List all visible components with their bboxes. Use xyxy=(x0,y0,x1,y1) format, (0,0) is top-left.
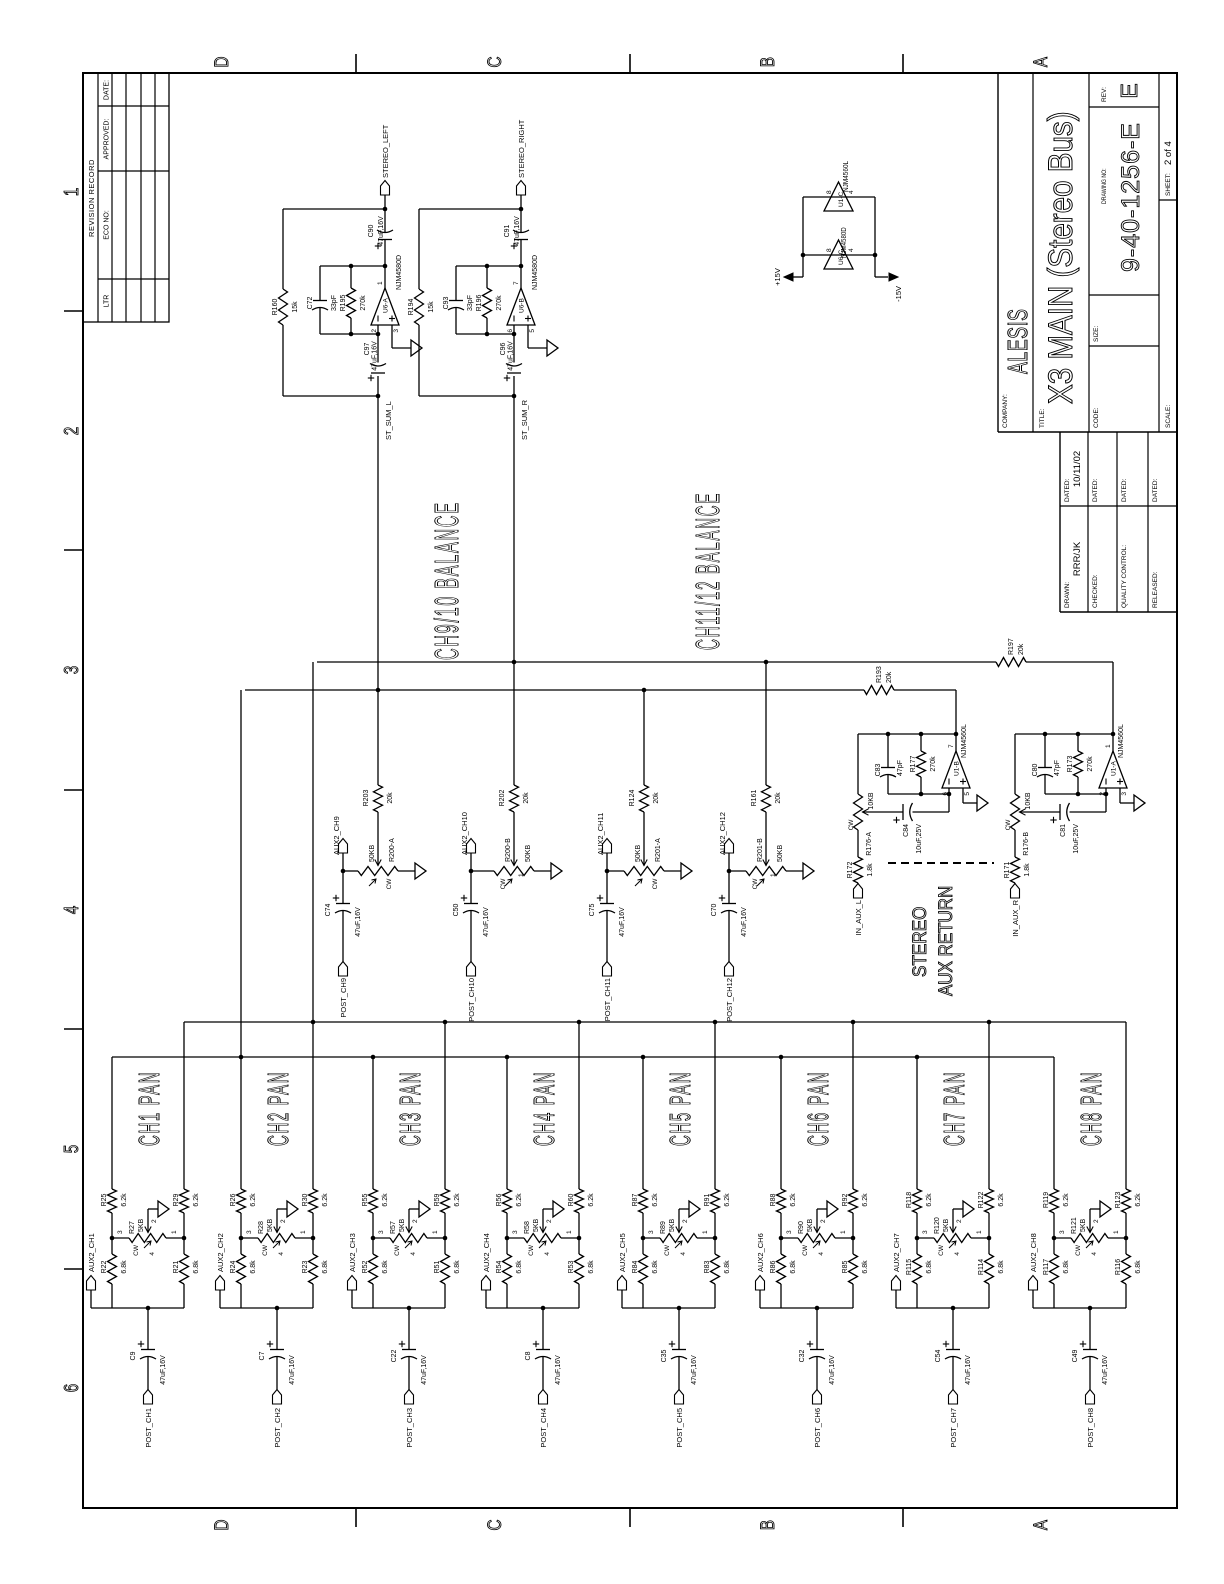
svg-text:6.2k: 6.2k xyxy=(998,1193,1005,1207)
svg-text:R176-A: R176-A xyxy=(866,832,873,856)
svg-text:47pF: 47pF xyxy=(1054,760,1061,776)
svg-text:U6-A: U6-A xyxy=(383,298,390,313)
svg-text:R201-A: R201-A xyxy=(655,838,662,862)
svg-text:A: A xyxy=(1029,1519,1051,1530)
svg-text:R114: R114 xyxy=(978,1259,985,1275)
svg-text:R52: R52 xyxy=(362,1260,369,1273)
svg-text:6.2k: 6.2k xyxy=(516,1193,523,1207)
svg-text:270k: 270k xyxy=(496,295,503,311)
svg-text:6.2k: 6.2k xyxy=(790,1193,797,1207)
svg-text:D: D xyxy=(210,57,232,68)
svg-text:47uF,16V: 47uF,16V xyxy=(160,1355,167,1385)
svg-text:R121: R121 xyxy=(1071,1217,1078,1234)
svg-text:SIZE:: SIZE: xyxy=(1093,326,1100,342)
svg-text:3: 3 xyxy=(378,1230,385,1234)
svg-text:ALESIS: ALESIS xyxy=(1002,308,1033,374)
svg-text:2: 2 xyxy=(412,1219,419,1223)
svg-text:TITLE:: TITLE: xyxy=(1039,408,1046,428)
svg-text:6.8k: 6.8k xyxy=(588,1260,595,1274)
svg-text:2: 2 xyxy=(371,329,378,333)
svg-text:AUX RETURN: AUX RETURN xyxy=(934,886,956,996)
svg-text:R56: R56 xyxy=(496,1193,503,1206)
svg-text:R176-B: R176-B xyxy=(1023,832,1030,856)
svg-text:5KB: 5KB xyxy=(267,1218,274,1232)
svg-text:R118: R118 xyxy=(906,1192,913,1208)
svg-text:47uF,16V: 47uF,16V xyxy=(483,907,490,937)
svg-text:CH11/12 BALANCE: CH11/12 BALANCE xyxy=(691,492,727,650)
svg-text:6.2k: 6.2k xyxy=(862,1193,869,1207)
svg-text:C70: C70 xyxy=(711,903,718,916)
svg-text:POST_CH7: POST_CH7 xyxy=(949,1408,958,1448)
svg-text:R200-A: R200-A xyxy=(389,838,396,862)
svg-text:47uF,16V: 47uF,16V xyxy=(289,1355,296,1385)
svg-text:B: B xyxy=(756,57,778,67)
svg-text:4: 4 xyxy=(544,1252,551,1256)
svg-text:R21: R21 xyxy=(173,1260,180,1273)
svg-text:C49: C49 xyxy=(1072,1349,1079,1362)
svg-text:C91: C91 xyxy=(504,224,511,237)
svg-text:R201-B: R201-B xyxy=(757,838,764,862)
svg-text:1: 1 xyxy=(770,873,777,877)
svg-text:APPROVED:: APPROVED: xyxy=(104,119,111,160)
svg-text:1: 1 xyxy=(60,188,83,196)
svg-text:6: 6 xyxy=(60,1384,83,1392)
svg-text:X3 MAIN (Stereo Bus): X3 MAIN (Stereo Bus) xyxy=(1041,111,1079,404)
svg-text:AUX2_CH7: AUX2_CH7 xyxy=(892,1233,901,1272)
svg-text:AUX2_CH2: AUX2_CH2 xyxy=(216,1233,225,1272)
svg-text:C96: C96 xyxy=(500,342,507,355)
svg-text:1: 1 xyxy=(377,281,384,285)
svg-text:47uF,16V: 47uF,16V xyxy=(1102,1355,1109,1385)
svg-text:R90: R90 xyxy=(798,1221,805,1234)
svg-text:C75: C75 xyxy=(589,903,596,916)
svg-text:2: 2 xyxy=(956,1219,963,1223)
svg-text:R24: R24 xyxy=(230,1260,237,1273)
svg-text:3: 3 xyxy=(117,1230,124,1234)
svg-text:-15V: -15V xyxy=(894,286,903,302)
svg-text:NJM4580D: NJM4580D xyxy=(532,255,539,290)
svg-text:R177: R177 xyxy=(910,756,917,773)
svg-text:POST_CH2: POST_CH2 xyxy=(273,1408,282,1448)
svg-text:20k: 20k xyxy=(523,792,530,804)
svg-text:R59: R59 xyxy=(434,1193,441,1206)
svg-text:R123: R123 xyxy=(1115,1192,1122,1209)
svg-text:R26: R26 xyxy=(230,1193,237,1206)
svg-text:CH1 PAN: CH1 PAN xyxy=(133,1071,166,1146)
svg-text:AUX2_CH12: AUX2_CH12 xyxy=(718,812,727,855)
svg-text:6.8k: 6.8k xyxy=(724,1260,731,1274)
svg-text:B: B xyxy=(756,1520,778,1530)
svg-text:15k: 15k xyxy=(292,301,299,313)
svg-text:AUX2_CH3: AUX2_CH3 xyxy=(348,1233,357,1272)
svg-text:4: 4 xyxy=(680,1252,687,1256)
svg-text:C35: C35 xyxy=(661,1349,668,1362)
svg-text:DATED:: DATED: xyxy=(1092,478,1099,502)
svg-text:R171: R171 xyxy=(1004,862,1011,879)
svg-text:STEREO_RIGHT: STEREO_RIGHT xyxy=(517,119,526,178)
svg-text:3: 3 xyxy=(922,1230,929,1234)
svg-text:3: 3 xyxy=(648,1230,655,1234)
svg-text:4: 4 xyxy=(1091,1252,1098,1256)
svg-text:20k: 20k xyxy=(653,792,660,804)
svg-text:POST_CH11: POST_CH11 xyxy=(603,978,612,1021)
svg-text:R27: R27 xyxy=(129,1221,136,1234)
svg-text:STEREO: STEREO xyxy=(908,906,930,977)
svg-text:47uF,16V: 47uF,16V xyxy=(555,1355,562,1385)
svg-text:4: 4 xyxy=(278,1252,285,1256)
svg-text:R55: R55 xyxy=(362,1193,369,1206)
svg-text:6.2k: 6.2k xyxy=(454,1193,461,1207)
svg-text:6.8k: 6.8k xyxy=(652,1260,659,1274)
svg-text:AUX2_CH4: AUX2_CH4 xyxy=(482,1233,491,1272)
svg-text:ST_SUM_R: ST_SUM_R xyxy=(520,399,529,440)
svg-text:CW: CW xyxy=(1005,819,1012,831)
svg-text:8: 8 xyxy=(826,248,833,252)
svg-text:COMPANY:: COMPANY: xyxy=(1002,394,1009,428)
svg-text:3: 3 xyxy=(60,666,83,674)
svg-text:2: 2 xyxy=(1093,1219,1100,1223)
svg-text:R53: R53 xyxy=(568,1260,575,1273)
svg-text:R172: R172 xyxy=(847,862,854,879)
svg-text:U1-A: U1-A xyxy=(1111,761,1118,776)
svg-text:6.8k: 6.8k xyxy=(516,1260,523,1274)
svg-text:270k: 270k xyxy=(1087,756,1094,772)
svg-text:5: 5 xyxy=(964,792,971,796)
svg-text:4: 4 xyxy=(818,1252,825,1256)
svg-text:ST_SUM_L: ST_SUM_L xyxy=(384,401,393,440)
svg-text:6.8k: 6.8k xyxy=(121,1260,128,1274)
svg-text:6.2k: 6.2k xyxy=(250,1193,257,1207)
svg-text:DRAWN:: DRAWN: xyxy=(1064,582,1071,608)
svg-text:R117: R117 xyxy=(1043,1259,1050,1275)
svg-text:5KB: 5KB xyxy=(807,1218,814,1232)
svg-text:C8: C8 xyxy=(525,1351,532,1360)
svg-text:R30: R30 xyxy=(302,1193,309,1206)
svg-text:33pF: 33pF xyxy=(467,295,474,311)
svg-text:2: 2 xyxy=(820,1219,827,1223)
svg-text:CW: CW xyxy=(938,1244,945,1256)
svg-text:50KB: 50KB xyxy=(369,845,376,862)
svg-text:7: 7 xyxy=(948,744,955,748)
svg-text:R115: R115 xyxy=(906,1259,913,1275)
svg-text:NJM4560L: NJM4560L xyxy=(1118,724,1125,758)
svg-text:1: 1 xyxy=(976,1230,983,1234)
svg-text:R124: R124 xyxy=(629,790,636,807)
svg-text:6.8k: 6.8k xyxy=(998,1260,1005,1274)
svg-text:RELEASED:: RELEASED: xyxy=(1152,571,1159,608)
svg-text:R91: R91 xyxy=(704,1193,711,1206)
svg-text:5KB: 5KB xyxy=(138,1218,145,1232)
svg-text:1: 1 xyxy=(1113,1230,1120,1234)
svg-text:CH4 PAN: CH4 PAN xyxy=(528,1071,561,1146)
svg-text:R28: R28 xyxy=(258,1221,265,1234)
svg-text:CW: CW xyxy=(528,1244,535,1256)
svg-text:5KB: 5KB xyxy=(1080,1218,1087,1232)
svg-text:CW: CW xyxy=(848,819,855,831)
svg-text:C83: C83 xyxy=(875,763,882,776)
svg-text:C32: C32 xyxy=(799,1349,806,1362)
svg-text:POST_CH4: POST_CH4 xyxy=(539,1408,548,1448)
svg-text:47pF: 47pF xyxy=(897,760,904,776)
svg-text:6.2k: 6.2k xyxy=(193,1193,200,1207)
svg-text:15k: 15k xyxy=(428,301,435,313)
svg-text:7: 7 xyxy=(513,281,520,285)
svg-text:4: 4 xyxy=(954,1252,961,1256)
svg-text:47uF,16V: 47uF,16V xyxy=(619,907,626,937)
svg-text:AUX2_CH1: AUX2_CH1 xyxy=(87,1233,96,1272)
svg-text:6.2k: 6.2k xyxy=(926,1193,933,1207)
svg-text:C9: C9 xyxy=(130,1351,137,1360)
svg-text:10uF,25V: 10uF,25V xyxy=(1073,824,1080,854)
svg-text:C7: C7 xyxy=(259,1351,266,1360)
svg-text:47uF,16V: 47uF,16V xyxy=(691,1355,698,1385)
svg-text:R193: R193 xyxy=(876,666,883,683)
svg-text:POST_CH3: POST_CH3 xyxy=(405,1408,414,1448)
svg-text:AUX2_CH6: AUX2_CH6 xyxy=(756,1233,765,1272)
svg-text:CW: CW xyxy=(262,1244,269,1256)
svg-text:R29: R29 xyxy=(173,1193,180,1206)
svg-text:6.8k: 6.8k xyxy=(926,1260,933,1274)
svg-text:R161: R161 xyxy=(751,790,758,807)
svg-text:DATED:: DATED: xyxy=(1121,478,1128,502)
svg-text:47uF,16V: 47uF,16V xyxy=(355,907,362,937)
svg-text:270k: 270k xyxy=(930,756,937,772)
svg-text:DATED:: DATED: xyxy=(1152,478,1159,502)
svg-text:R202: R202 xyxy=(499,790,506,807)
svg-text:8: 8 xyxy=(826,190,833,194)
svg-text:10KB: 10KB xyxy=(868,792,875,809)
svg-text:2: 2 xyxy=(682,1219,689,1223)
svg-text:47uF,16V: 47uF,16V xyxy=(514,216,521,246)
svg-text:R89: R89 xyxy=(660,1221,667,1234)
svg-text:U1-B: U1-B xyxy=(954,761,961,776)
svg-text:LTR: LTR xyxy=(104,295,111,308)
svg-text:6.2k: 6.2k xyxy=(652,1193,659,1207)
svg-text:CW: CW xyxy=(133,1244,140,1256)
svg-text:R122: R122 xyxy=(978,1192,985,1209)
svg-text:2: 2 xyxy=(280,1219,287,1223)
svg-text:SCALE:: SCALE: xyxy=(1165,405,1172,428)
svg-text:A: A xyxy=(1029,56,1051,67)
svg-text:C80: C80 xyxy=(1032,763,1039,776)
svg-text:R84: R84 xyxy=(632,1260,639,1273)
svg-text:R22: R22 xyxy=(101,1260,108,1273)
svg-text:33pF: 33pF xyxy=(331,295,338,311)
svg-text:AUX2_CH9: AUX2_CH9 xyxy=(332,816,341,855)
svg-text:POST_CH12: POST_CH12 xyxy=(725,978,734,1022)
svg-text:R83: R83 xyxy=(704,1260,711,1273)
svg-text:R195: R195 xyxy=(340,295,347,312)
svg-text:6.8k: 6.8k xyxy=(862,1260,869,1274)
svg-text:ECO NO:: ECO NO: xyxy=(104,210,111,240)
svg-text:POST_CH8: POST_CH8 xyxy=(1086,1408,1095,1448)
svg-text:CW: CW xyxy=(1075,1244,1082,1256)
svg-text:47uF,16V: 47uF,16V xyxy=(829,1355,836,1385)
svg-text:1.8k: 1.8k xyxy=(1024,863,1031,877)
svg-text:6: 6 xyxy=(507,329,514,333)
svg-text:CH9/10 BALANCE: CH9/10 BALANCE xyxy=(428,501,466,660)
svg-text:3: 3 xyxy=(1121,792,1128,796)
svg-text:R54: R54 xyxy=(496,1260,503,1273)
svg-text:R92: R92 xyxy=(842,1193,849,1206)
svg-text:10KB: 10KB xyxy=(1025,792,1032,809)
svg-text:2: 2 xyxy=(60,427,83,435)
svg-text:C97: C97 xyxy=(364,342,371,355)
svg-text:6.8k: 6.8k xyxy=(322,1260,329,1274)
svg-text:9-40-1256-E: 9-40-1256-E xyxy=(1117,122,1145,272)
svg-text:DATED:: DATED: xyxy=(1064,478,1071,502)
svg-text:6.8k: 6.8k xyxy=(193,1260,200,1274)
svg-text:SHEET:: SHEET: xyxy=(1165,173,1172,196)
svg-text:CW: CW xyxy=(652,878,659,890)
svg-text:R58: R58 xyxy=(524,1221,531,1234)
svg-text:QUALITY CONTROL:: QUALITY CONTROL: xyxy=(1121,545,1128,608)
svg-text:5: 5 xyxy=(60,1145,83,1153)
svg-text:POST_CH5: POST_CH5 xyxy=(675,1408,684,1448)
svg-text:4: 4 xyxy=(149,1252,156,1256)
svg-text:2: 2 xyxy=(151,1219,158,1223)
svg-text:47uF,16V: 47uF,16V xyxy=(421,1355,428,1385)
svg-text:50KB: 50KB xyxy=(525,845,532,862)
svg-text:DRAWING NO:: DRAWING NO: xyxy=(1102,168,1109,204)
svg-text:6.2k: 6.2k xyxy=(121,1193,128,1207)
svg-text:2 of 4: 2 of 4 xyxy=(1163,141,1174,165)
svg-text:C93: C93 xyxy=(443,296,450,309)
svg-text:NJM4580D: NJM4580D xyxy=(396,255,403,290)
svg-text:R86: R86 xyxy=(770,1260,777,1273)
svg-text:STEREO_LEFT: STEREO_LEFT xyxy=(381,124,390,178)
svg-text:CW: CW xyxy=(752,878,759,890)
svg-text:20k: 20k xyxy=(1018,643,1025,655)
svg-text:1: 1 xyxy=(300,1230,307,1234)
svg-text:20k: 20k xyxy=(387,792,394,804)
svg-text:CH8 PAN: CH8 PAN xyxy=(1075,1071,1108,1146)
svg-text:DATE:: DATE: xyxy=(104,80,111,100)
svg-text:1: 1 xyxy=(518,873,525,877)
svg-text:C54: C54 xyxy=(935,1349,942,1362)
svg-text:AUX2_CH8: AUX2_CH8 xyxy=(1029,1233,1038,1272)
svg-text:R160: R160 xyxy=(272,299,279,316)
svg-text:R200-B: R200-B xyxy=(505,838,512,862)
svg-text:5KB: 5KB xyxy=(943,1218,950,1232)
svg-text:47uF,16V: 47uF,16V xyxy=(378,216,385,246)
svg-text:CW: CW xyxy=(500,878,507,890)
svg-text:R119: R119 xyxy=(1043,1192,1050,1208)
svg-text:C50: C50 xyxy=(453,903,460,916)
svg-text:CW: CW xyxy=(394,1244,401,1256)
svg-text:CH5 PAN: CH5 PAN xyxy=(664,1071,697,1146)
svg-text:D: D xyxy=(210,1520,232,1531)
svg-text:CH2 PAN: CH2 PAN xyxy=(262,1071,295,1146)
svg-text:C74: C74 xyxy=(325,903,332,916)
svg-text:270k: 270k xyxy=(360,295,367,311)
svg-text:50KB: 50KB xyxy=(635,845,642,862)
svg-text:R120: R120 xyxy=(934,1217,941,1234)
svg-text:R25: R25 xyxy=(101,1193,108,1206)
svg-text:POST_CH1: POST_CH1 xyxy=(144,1408,153,1448)
svg-text:NJM4560L: NJM4560L xyxy=(961,724,968,758)
svg-text:IN_AUX_L: IN_AUX_L xyxy=(854,900,863,935)
svg-text:IN_AUX_R: IN_AUX_R xyxy=(1011,899,1020,936)
svg-text:C: C xyxy=(483,1520,505,1531)
svg-text:5KB: 5KB xyxy=(533,1218,540,1232)
svg-text:POST_CH9: POST_CH9 xyxy=(339,978,348,1018)
svg-text:6.2k: 6.2k xyxy=(1135,1193,1142,1207)
svg-text:R203: R203 xyxy=(363,790,370,807)
svg-text:4: 4 xyxy=(848,248,855,252)
svg-text:R116: R116 xyxy=(1115,1259,1122,1275)
svg-text:R173: R173 xyxy=(1067,756,1074,773)
svg-text:6.8k: 6.8k xyxy=(382,1260,389,1274)
svg-text:R194: R194 xyxy=(408,299,415,316)
svg-text:+15V: +15V xyxy=(773,268,782,286)
svg-text:C72: C72 xyxy=(307,296,314,309)
svg-text:C90: C90 xyxy=(368,224,375,237)
svg-text:AUX2_CH5: AUX2_CH5 xyxy=(618,1233,627,1272)
svg-text:6.2k: 6.2k xyxy=(1063,1193,1070,1207)
svg-text:10uF,25V: 10uF,25V xyxy=(916,824,923,854)
svg-text:CW: CW xyxy=(386,878,393,890)
svg-text:POST_CH10: POST_CH10 xyxy=(467,978,476,1022)
svg-text:1: 1 xyxy=(702,1230,709,1234)
svg-text:CHECKED:: CHECKED: xyxy=(1092,574,1099,608)
svg-text:1: 1 xyxy=(1105,744,1112,748)
svg-text:R60: R60 xyxy=(568,1193,575,1206)
svg-text:4: 4 xyxy=(410,1252,417,1256)
svg-text:R87: R87 xyxy=(632,1193,639,1206)
svg-text:R196: R196 xyxy=(476,295,483,312)
svg-text:5: 5 xyxy=(529,329,536,333)
svg-text:6.8k: 6.8k xyxy=(1135,1260,1142,1274)
svg-text:2: 2 xyxy=(546,1219,553,1223)
svg-text:5KB: 5KB xyxy=(399,1218,406,1232)
svg-text:AUX2_CH11: AUX2_CH11 xyxy=(596,813,605,855)
svg-text:CH7 PAN: CH7 PAN xyxy=(938,1071,971,1146)
svg-text:E: E xyxy=(1116,83,1142,98)
svg-text:4: 4 xyxy=(60,906,83,914)
svg-text:RRR/JK: RRR/JK xyxy=(1072,541,1083,576)
svg-text:3: 3 xyxy=(786,1230,793,1234)
svg-text:CODE:: CODE: xyxy=(1093,407,1100,428)
svg-text:CW: CW xyxy=(802,1244,809,1256)
svg-text:1: 1 xyxy=(566,1230,573,1234)
svg-text:C84: C84 xyxy=(903,824,910,837)
svg-text:AUX2_CH10: AUX2_CH10 xyxy=(460,812,469,855)
svg-text:C81: C81 xyxy=(1060,824,1067,837)
svg-text:NJM4580D: NJM4580D xyxy=(841,227,848,258)
svg-text:6.2k: 6.2k xyxy=(724,1193,731,1207)
svg-text:3: 3 xyxy=(393,329,400,333)
svg-text:1: 1 xyxy=(432,1230,439,1234)
svg-text:CH6 PAN: CH6 PAN xyxy=(802,1071,835,1146)
svg-text:C22: C22 xyxy=(391,1349,398,1362)
svg-text:6.8k: 6.8k xyxy=(454,1260,461,1274)
svg-text:10/11/02: 10/11/02 xyxy=(1072,451,1083,487)
svg-text:6.8k: 6.8k xyxy=(1063,1260,1070,1274)
svg-text:47uF,16V: 47uF,16V xyxy=(741,907,748,937)
svg-text:C: C xyxy=(483,57,505,68)
svg-text:1: 1 xyxy=(171,1230,178,1234)
svg-text:NJM4560L: NJM4560L xyxy=(843,161,850,192)
svg-text:R23: R23 xyxy=(302,1260,309,1273)
svg-text:REV:: REV: xyxy=(1101,87,1108,102)
svg-text:1.8k: 1.8k xyxy=(867,863,874,877)
svg-text:U6-B: U6-B xyxy=(519,298,526,313)
svg-text:R85: R85 xyxy=(842,1260,849,1273)
svg-text:CW: CW xyxy=(664,1244,671,1256)
svg-text:50KB: 50KB xyxy=(777,845,784,862)
svg-text:POST_CH6: POST_CH6 xyxy=(813,1408,822,1448)
